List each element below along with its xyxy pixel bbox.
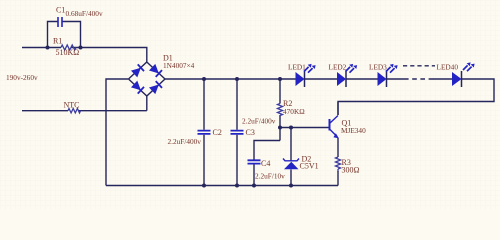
junction dots base node (278, 126, 293, 130)
resistor R3 (336, 157, 360, 186)
dashed wire continuation (404, 78, 434, 80)
svg-text:R1: R1 (53, 37, 62, 46)
svg-text:2.2uF/10v: 2.2uF/10v (255, 172, 285, 181)
svg-text:C4: C4 (261, 159, 270, 168)
svg-text:510KΩ: 510KΩ (56, 48, 80, 57)
capacitor C4 (248, 141, 286, 186)
capacitor C3 (231, 79, 276, 186)
wire bottom AC line (22, 110, 147, 112)
junction dots R1/C1 loop (46, 46, 83, 50)
resistor R1 (53, 37, 79, 58)
svg-text:0.68uF/400v: 0.68uF/400v (66, 9, 103, 18)
thermistor NTC (64, 101, 81, 113)
wire top AC line (22, 48, 147, 63)
bridge diode top-left (131, 64, 144, 77)
wire base node (280, 127, 329, 129)
wire LED return to collector (338, 79, 494, 115)
svg-text:300Ω: 300Ω (342, 166, 360, 175)
bridge diode bottom-right (149, 81, 162, 94)
LED1 (288, 63, 316, 88)
svg-text:C3: C3 (246, 128, 255, 137)
svg-text:LED40: LED40 (437, 63, 459, 72)
svg-text:C5V1: C5V1 (300, 162, 319, 171)
bridge diode top-right (149, 64, 162, 77)
svg-text:NTC: NTC (64, 101, 80, 110)
transistor Q1 (330, 102, 367, 157)
svg-text:2.2uF/400v: 2.2uF/400v (168, 137, 202, 146)
bridge rectifier D1 diamond (129, 54, 195, 97)
svg-text:190v-260v: 190v-260v (6, 73, 38, 82)
LED3 (369, 63, 398, 88)
wire bottom rail (106, 185, 338, 187)
LED40 (437, 62, 475, 87)
junction dots top rail (202, 77, 282, 81)
resistor R2 (278, 79, 306, 141)
wire to LED40 (433, 78, 452, 80)
wire DC minus from bridge left vertex (106, 79, 128, 186)
svg-text:2.2uF/400v: 2.2uF/400v (242, 117, 276, 126)
bridge diode bottom-left (131, 81, 144, 94)
svg-text:MJE340: MJE340 (341, 126, 366, 135)
dashed label continuation (403, 65, 435, 67)
svg-text:LED2: LED2 (329, 63, 347, 72)
svg-text:1N4007×4: 1N4007×4 (163, 61, 195, 70)
svg-text:C2: C2 (213, 128, 222, 137)
LED2 (329, 63, 358, 88)
svg-text:C1: C1 (56, 6, 65, 15)
svg-text:LED3: LED3 (369, 63, 387, 72)
capacitor C2 (168, 79, 222, 186)
svg-text:470KΩ: 470KΩ (283, 107, 305, 116)
wire DC plus top rail (165, 78, 404, 80)
svg-text:LED1: LED1 (288, 63, 306, 72)
wire bridge bottom vertex to AC (146, 96, 148, 111)
capacitor C1 (48, 6, 103, 48)
junction dots bottom rail (202, 184, 293, 188)
zener diode D2 (283, 128, 319, 186)
